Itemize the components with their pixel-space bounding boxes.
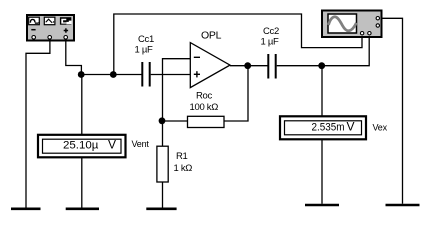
- resistor R1: [157, 146, 168, 182]
- svg-text:2.535m: 2.535m: [312, 122, 345, 134]
- wire: main input run to Cc1: [81, 74, 141, 76]
- oscilloscope XSC1: [322, 11, 382, 38]
- FG square button: [60, 17, 72, 25]
- svg-text:Vent: Vent: [132, 139, 150, 149]
- wire: dot3 to Roc left: [162, 120, 188, 122]
- svg-text:1 µF: 1 µF: [261, 37, 279, 48]
- ground (FG common): [11, 208, 41, 211]
- svg-text:R1: R1: [176, 151, 188, 162]
- ground (R1): [146, 208, 176, 211]
- node: feedback junction dot 3: [159, 117, 166, 124]
- wire: op-amp minus input branch down to feedback node: [163, 59, 191, 147]
- wire: voltmeter Vex to ground: [321, 140, 323, 204]
- voltmeter Vex: [280, 116, 366, 139]
- wire: Cc1 to op-amp plus input: [151, 74, 191, 76]
- svg-text:Cc1: Cc1: [138, 34, 154, 45]
- wire: FG common terminal down-left to ground: [26, 39, 50, 208]
- wire: R1 to ground: [162, 182, 164, 208]
- svg-text:Vex: Vex: [373, 122, 388, 132]
- svg-text:Roc: Roc: [196, 91, 213, 102]
- FG terminals: [32, 36, 36, 40]
- capacitor Cc1: [142, 62, 149, 87]
- svg-text:25.10µ: 25.10µ: [63, 140, 99, 152]
- wire: dot1 down to voltmeter Vent: [81, 75, 83, 135]
- wire: Roc right up to output node: [224, 66, 248, 121]
- svg-text:OPL: OPL: [201, 30, 222, 42]
- svg-text:1 µF: 1 µF: [135, 45, 153, 56]
- ground (Vent): [66, 208, 99, 211]
- scope screen: [328, 14, 357, 33]
- svg-text:Cc2: Cc2: [263, 26, 279, 37]
- voltmeter Vent: [38, 135, 126, 158]
- node: output junction dot 5: [318, 62, 325, 69]
- ground (scope): [386, 204, 420, 207]
- wire: dot2 up, across top, down to scope channel A terminal: [114, 14, 362, 75]
- node: input junction dot 2: [110, 71, 117, 78]
- FG plus label: [64, 28, 68, 32]
- wire: dot5 down to voltmeter Vex: [321, 66, 323, 116]
- svg-text:V: V: [347, 120, 355, 134]
- svg-text:100 kΩ: 100 kΩ: [190, 102, 219, 113]
- FG minus label: [31, 29, 35, 31]
- capacitor Cc2: [268, 54, 275, 79]
- function generator XFG1: [27, 15, 74, 41]
- svg-text:1 kΩ: 1 kΩ: [174, 163, 193, 174]
- scope sine trace: [329, 17, 357, 31]
- node: input junction dot 1: [78, 71, 85, 78]
- wire: FG plus terminal to input node: [66, 39, 82, 75]
- op-amp U1 OPL: [190, 43, 230, 88]
- wire: voltmeter Vent to ground: [81, 158, 83, 208]
- wire: scope right terminal to ground: [380, 18, 403, 204]
- scope terminals: [376, 17, 379, 20]
- svg-text:V: V: [108, 138, 116, 152]
- node: output junction dot 4: [244, 62, 251, 69]
- wire: op-amp output run to Cc2: [230, 65, 268, 67]
- resistor Roc: [188, 116, 225, 127]
- wire: Cc2 to scope channel B terminal: [277, 37, 370, 66]
- FG sine button: [29, 17, 40, 25]
- ground (Vex): [305, 204, 339, 207]
- FG triangle button: [44, 17, 55, 25]
